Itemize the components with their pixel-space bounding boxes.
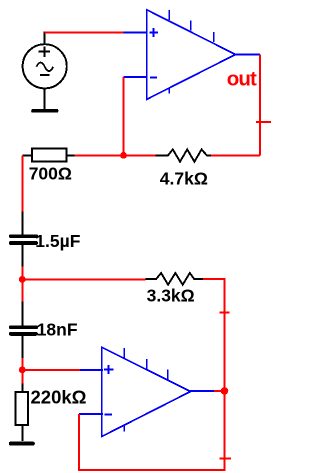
wire node A column down to C1 (21, 155, 23, 212)
wire U1 inverting input down to node A (123, 77, 125, 155)
U2 plus marker (104, 369, 113, 371)
wire U2 output to right column junction (214, 390, 225, 392)
op-amp U1 (124, 10, 261, 100)
resistor R2 4.7k (155, 149, 211, 161)
node C junction (19, 367, 26, 374)
U1 - input pin (124, 76, 148, 78)
wire node A to R2 (124, 154, 156, 156)
U2 output pin (190, 390, 215, 392)
U2 bottom power tick (123, 426, 125, 432)
resistor R3 3.3k (146, 273, 204, 285)
svg-text:220kΩ: 220kΩ (31, 386, 87, 407)
U1 plus marker (149, 32, 158, 34)
U1 triangle body (147, 10, 236, 100)
U1 power tick 1 (168, 10, 170, 20)
ac source V1 (23, 32, 67, 109)
wire R1 to node A (75, 154, 124, 156)
wire V1 top to U1 non-inverting input (45, 32, 124, 34)
U1 + input pin (124, 32, 148, 34)
U2 + input pin (80, 369, 103, 371)
wire U2 feedback loop (79, 391, 225, 470)
wire handle tick upper (220, 312, 230, 314)
U1 output pin (235, 53, 261, 55)
wire U1 output down to feedback row (259, 54, 261, 155)
U1 bottom power tick (168, 88, 170, 94)
capacitor C2 18nF (11, 302, 37, 359)
svg-text:4.7kΩ: 4.7kΩ (160, 169, 208, 189)
svg-text:out: out (227, 67, 257, 90)
wire node C to U2 non-inverting input (22, 369, 80, 371)
U2 triangle body (102, 347, 191, 436)
capacitor C1 1.5uF (11, 211, 37, 267)
U2 minus marker (105, 414, 113, 416)
wire node B down to C2 (21, 279, 23, 302)
node B junction (19, 276, 26, 283)
svg-text:18nF: 18nF (37, 320, 78, 340)
op-amp U2 (79, 347, 215, 436)
svg-text:3.3kΩ: 3.3kΩ (147, 286, 195, 306)
resistor R4 220k (16, 384, 28, 442)
U2 power tick 1 (123, 348, 125, 358)
wire stub to right edge (256, 121, 271, 123)
svg-text:1.5µF: 1.5µF (35, 231, 80, 251)
wire R3 to right column (203, 279, 225, 391)
node D junction (221, 387, 229, 395)
svg-text:700Ω: 700Ω (29, 164, 72, 184)
wire node B to R3 (22, 278, 145, 280)
resistor R1 700 ohm (22, 149, 74, 162)
U2 - input pin (79, 413, 103, 415)
wire C2 to node C (21, 358, 23, 370)
node A junction (120, 152, 127, 159)
wire handle tick lower (220, 458, 231, 460)
wire C1 to node B (21, 266, 23, 279)
U2 power tick 3 (167, 370, 169, 380)
U1 power tick 3 (213, 32, 215, 42)
wire R2 to out column (211, 154, 260, 156)
U1 power tick 2 (190, 21, 192, 31)
ground (source) (31, 109, 58, 113)
U1 minus marker (150, 76, 157, 78)
ground (R4) (9, 442, 35, 446)
U2 power tick 2 (146, 359, 148, 369)
wire node C down to R4 (21, 370, 23, 385)
